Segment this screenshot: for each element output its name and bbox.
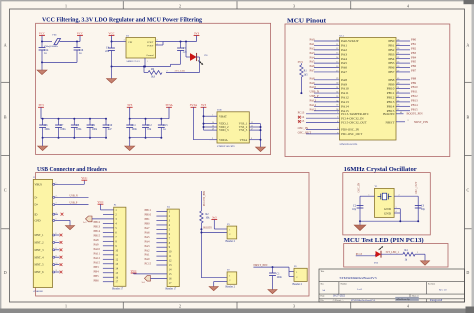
svg-text:USB_P: USB_P — [70, 202, 78, 205]
svg-text:C10: C10 — [108, 124, 113, 127]
svg-text:STM32MiniDevBoardV3: STM32MiniDevBoardV3 — [340, 276, 377, 280]
svg-text:25: 25 — [397, 100, 399, 102]
svg-text:PB10: PB10 — [145, 213, 152, 217]
svg-text:PB9: PB9 — [411, 81, 417, 85]
svg-text:PB6: PB6 — [388, 66, 394, 70]
svg-text:VSSA: VSSA — [240, 138, 249, 142]
svg-text:VCC: VCC — [81, 176, 87, 180]
svg-text:PA12: PA12 — [94, 256, 101, 260]
svg-text:PB3: PB3 — [388, 52, 394, 56]
svg-text:PA1: PA1 — [310, 42, 316, 46]
svg-text:STM32MiniDevBoardV3.S: STM32MiniDevBoardV3.S — [351, 300, 376, 302]
svg-text:PB12: PB12 — [387, 96, 395, 100]
svg-text:PA3: PA3 — [310, 51, 316, 55]
svg-text:MNT_2: MNT_2 — [35, 242, 45, 245]
svg-text:4: 4 — [337, 121, 338, 123]
svg-text:4700u@100MHz: 4700u@100MHz — [44, 46, 58, 48]
svg-text:3V3A: 3V3A — [165, 103, 173, 107]
svg-text:PA5: PA5 — [341, 61, 347, 65]
svg-text:PB13: PB13 — [387, 100, 395, 104]
svg-text:21: 21 — [397, 53, 399, 55]
svg-text:VDDA: VDDA — [219, 138, 228, 142]
svg-text:Title: Title — [321, 271, 325, 273]
svg-text:PA4: PA4 — [341, 57, 347, 61]
svg-text:PA10: PA10 — [341, 87, 349, 91]
svg-text:7: 7 — [56, 241, 57, 243]
svg-text:B: B — [4, 115, 7, 120]
svg-text:PA0: PA0 — [310, 38, 316, 42]
svg-text:C13: C13 — [163, 124, 168, 127]
svg-text:PB1: PB1 — [388, 44, 394, 48]
svg-text:PB2: PB2 — [411, 46, 417, 50]
svg-text:16MHz Crystal Oscillator: 16MHz Crystal Oscillator — [344, 166, 417, 173]
svg-text:PB5: PB5 — [388, 61, 394, 65]
svg-text:PA4: PA4 — [145, 239, 151, 243]
svg-text:473460001: 473460001 — [33, 291, 43, 293]
svg-text:45: 45 — [397, 78, 399, 80]
svg-text:48: 48 — [212, 128, 214, 130]
svg-text:PC14-OSC32_IN: PC14-OSC32_IN — [341, 116, 364, 120]
svg-text:1: 1 — [65, 303, 67, 308]
svg-text:NRST_PIN: NRST_PIN — [414, 120, 429, 124]
svg-text:PA0-WKUP: PA0-WKUP — [341, 39, 358, 43]
svg-text:4: 4 — [407, 303, 409, 308]
svg-text:PB4: PB4 — [94, 269, 100, 273]
svg-text:2: 2 — [56, 196, 57, 198]
svg-text:PB3: PB3 — [94, 265, 100, 269]
svg-text:Rev 1.0: Rev 1.0 — [439, 288, 447, 291]
svg-text:OSC_OUT: OSC_OUT — [298, 131, 312, 135]
svg-text:3: 3 — [56, 203, 57, 205]
svg-text:PB10: PB10 — [387, 87, 395, 91]
svg-text:VCC: VCC — [108, 31, 114, 35]
svg-text:USB_N: USB_N — [310, 90, 320, 94]
svg-text:PB7: PB7 — [388, 70, 394, 74]
svg-text:VCC: VCC — [131, 269, 137, 273]
svg-text:AMS1117-3.3: AMS1117-3.3 — [126, 60, 140, 63]
svg-text:VCC Filtering, 3.3V LDO Regula: VCC Filtering, 3.3V LDO Regulator and MC… — [42, 17, 203, 24]
svg-text:100n: 100n — [277, 276, 283, 279]
svg-text:NRST: NRST — [385, 121, 395, 125]
svg-text:GND: GND — [384, 207, 392, 211]
svg-text:PB8: PB8 — [411, 76, 417, 80]
svg-text:MNT_5: MNT_5 — [35, 264, 45, 267]
svg-text:3V3_LED: 3V3_LED — [175, 70, 186, 73]
svg-text:D: D — [4, 270, 7, 275]
svg-text:PA15: PA15 — [310, 107, 317, 111]
svg-text:3V3A: 3V3A — [190, 103, 198, 107]
svg-text:PA10: PA10 — [310, 85, 317, 89]
svg-text:2: 2 — [399, 194, 400, 196]
svg-text:46: 46 — [397, 83, 399, 85]
svg-text:4: 4 — [407, 3, 409, 8]
svg-text:16-27-2022: 16-27-2022 — [333, 294, 346, 297]
svg-text:PA2: PA2 — [310, 46, 316, 50]
svg-text:D+: D+ — [35, 204, 39, 207]
svg-text:1: 1 — [56, 183, 57, 185]
svg-text:1: 1 — [369, 194, 370, 196]
svg-text:File:: File: — [321, 300, 325, 302]
svg-text:5: 5 — [337, 128, 338, 130]
svg-text:14: 14 — [336, 57, 338, 59]
svg-text:PA13: PA13 — [310, 99, 317, 103]
svg-text:27: 27 — [397, 109, 399, 111]
svg-text:24: 24 — [212, 122, 214, 124]
svg-text:22: 22 — [397, 96, 399, 98]
svg-text:3: 3 — [337, 117, 338, 119]
svg-text:PA5: PA5 — [310, 60, 316, 64]
svg-text:PA12: PA12 — [341, 96, 349, 100]
svg-text:PB6: PB6 — [411, 64, 417, 68]
svg-text:OSC_IN: OSC_IN — [357, 183, 360, 193]
svg-text:MCU Test LED (PIN PC13): MCU Test LED (PIN PC13) — [344, 237, 424, 244]
svg-text:PB2: PB2 — [388, 48, 394, 52]
svg-text:ID: ID — [35, 213, 38, 216]
svg-text:Number: Number — [341, 283, 348, 285]
svg-text:5: 5 — [56, 219, 57, 221]
svg-text:26: 26 — [397, 66, 399, 68]
svg-text:PA1: PA1 — [341, 44, 347, 48]
svg-text:C: C — [466, 188, 469, 193]
svg-text:21: 21 — [397, 91, 399, 93]
svg-text:31: 31 — [336, 87, 338, 89]
svg-text:PC13: PC13 — [356, 253, 363, 256]
svg-text:C11: C11 — [132, 124, 137, 127]
svg-text:BOOT0_PIN: BOOT0_PIN — [407, 112, 424, 116]
svg-text:PB0: PB0 — [411, 38, 417, 42]
svg-text:4: 4 — [396, 211, 397, 213]
svg-text:46: 46 — [400, 112, 402, 114]
svg-text:PA8: PA8 — [310, 76, 316, 80]
svg-text:4: 4 — [56, 212, 57, 214]
svg-text:PD0-OSC_IN: PD0-OSC_IN — [341, 128, 360, 132]
svg-text:PA7: PA7 — [341, 70, 347, 74]
svg-text:1: 1 — [65, 3, 67, 8]
svg-text:MNT_3: MNT_3 — [35, 249, 45, 252]
svg-text:PB11: PB11 — [145, 208, 152, 212]
svg-text:BOOT0: BOOT0 — [383, 112, 395, 116]
svg-text:100n: 100n — [60, 128, 66, 131]
svg-text:U1A: U1A — [340, 34, 345, 37]
svg-text:38: 38 — [336, 109, 338, 111]
svg-text:GND: GND — [384, 211, 392, 215]
svg-text:PA8: PA8 — [94, 238, 100, 242]
svg-text:PB3: PB3 — [411, 51, 417, 55]
svg-text:Header 2: Header 2 — [226, 286, 236, 289]
svg-text:OSC_OUT: OSC_OUT — [415, 181, 418, 194]
svg-text:11: 11 — [336, 44, 338, 46]
svg-text:BOOT0_PIN: BOOT0_PIN — [203, 191, 206, 206]
svg-text:B: B — [466, 115, 469, 120]
svg-text:STM32F103C8T6: STM32F103C8T6 — [217, 145, 235, 148]
svg-text:Revision: Revision — [428, 283, 435, 285]
svg-text:100n: 100n — [92, 128, 98, 131]
svg-text:VOUT: VOUT — [147, 45, 154, 48]
svg-text:3: 3 — [124, 40, 125, 42]
svg-text:PA9: PA9 — [341, 82, 347, 86]
svg-text:6: 6 — [337, 132, 338, 134]
svg-text:PB13: PB13 — [94, 224, 101, 228]
svg-text:PA15: PA15 — [94, 260, 101, 264]
svg-text:Header 17: Header 17 — [166, 287, 177, 290]
svg-text:VBUS: VBUS — [35, 183, 43, 186]
svg-text:2: 2 — [179, 303, 181, 308]
svg-text:PA13: PA13 — [341, 100, 349, 104]
svg-text:PB6: PB6 — [94, 278, 100, 282]
svg-text:25: 25 — [397, 62, 399, 64]
svg-text:PA14: PA14 — [310, 103, 317, 107]
svg-text:USB Connector and Headers: USB Connector and Headers — [37, 166, 107, 173]
svg-text:PA0: PA0 — [145, 257, 151, 261]
svg-text:PA11: PA11 — [94, 251, 101, 255]
svg-text:18: 18 — [397, 39, 399, 41]
svg-text:PA3: PA3 — [341, 52, 347, 56]
svg-text:3: 3 — [293, 303, 295, 308]
svg-text:22: 22 — [397, 57, 399, 59]
svg-text:A: A — [466, 43, 469, 48]
svg-text:26: 26 — [397, 105, 399, 107]
svg-text:PB9: PB9 — [388, 82, 394, 86]
svg-text:51: 51 — [397, 87, 399, 89]
svg-text:C12: C12 — [147, 124, 152, 127]
svg-text:2: 2 — [167, 71, 168, 73]
svg-text:PB7: PB7 — [411, 69, 417, 73]
svg-text:10: 10 — [336, 39, 338, 41]
svg-text:PB12: PB12 — [411, 94, 418, 98]
svg-text:VCC: VCC — [39, 31, 45, 35]
svg-text:29: 29 — [336, 78, 338, 80]
svg-text:PB1: PB1 — [411, 42, 417, 46]
svg-text:PB4: PB4 — [388, 57, 394, 61]
svg-text:GND: GND — [35, 220, 41, 223]
svg-text:16: 16 — [336, 66, 338, 68]
svg-text:STM32F103C8T6: STM32F103C8T6 — [340, 143, 358, 146]
svg-text:17: 17 — [336, 70, 338, 72]
svg-text:PA3: PA3 — [145, 244, 151, 248]
svg-text:NRST_PIN: NRST_PIN — [253, 263, 268, 267]
svg-text:PB0: PB0 — [388, 39, 394, 43]
svg-text:3V3: 3V3 — [194, 31, 200, 35]
svg-text:1 of 1: 1 of 1 — [357, 288, 363, 291]
svg-text:Size: Size — [321, 283, 325, 285]
svg-text:VDD_3: VDD_3 — [219, 128, 229, 132]
svg-text:PB13: PB13 — [411, 99, 418, 103]
svg-text:3V3: 3V3 — [298, 60, 304, 64]
svg-text:32: 32 — [336, 91, 338, 93]
svg-text:PA7: PA7 — [145, 226, 151, 230]
svg-text:12: 12 — [336, 48, 338, 50]
svg-text:MCU Pinout: MCU Pinout — [287, 17, 327, 24]
svg-text:VOUT: VOUT — [147, 41, 154, 44]
svg-text:3V3: 3V3 — [38, 103, 44, 107]
svg-text:37: 37 — [336, 105, 338, 107]
svg-text:100n: 100n — [76, 128, 82, 131]
svg-text:8: 8 — [56, 248, 57, 250]
svg-text:23: 23 — [251, 122, 253, 124]
svg-text:PA11: PA11 — [341, 91, 349, 95]
svg-text:3V3: 3V3 — [127, 103, 133, 107]
svg-text:MNT_4: MNT_4 — [35, 256, 45, 259]
svg-text:20: 20 — [397, 48, 399, 50]
svg-text:PB11: PB11 — [411, 90, 418, 94]
svg-text:33: 33 — [336, 96, 338, 98]
svg-text:C: C — [4, 188, 7, 193]
svg-text:PB1: PB1 — [145, 217, 151, 221]
svg-text:C:\Users\ ..\: C:\Users\ ..\ — [333, 300, 344, 302]
svg-text:MNT_6: MNT_6 — [35, 271, 45, 274]
svg-text:100n: 100n — [44, 128, 50, 131]
svg-text:3v3: 3v3 — [212, 215, 217, 219]
svg-text:PC15-OSC32_OUT: PC15-OSC32_OUT — [341, 121, 367, 125]
svg-text:2: 2 — [179, 3, 181, 8]
svg-text:34: 34 — [336, 100, 338, 102]
svg-text:VCC: VCC — [77, 31, 83, 35]
svg-text:PB4: PB4 — [411, 55, 417, 59]
svg-text:VIN: VIN — [128, 41, 133, 44]
svg-text:35: 35 — [251, 125, 253, 127]
svg-text:PB8: PB8 — [388, 78, 394, 82]
svg-text:100n: 100n — [132, 128, 138, 131]
svg-text:PB15: PB15 — [94, 233, 101, 237]
svg-text:OSC_IN: OSC_IN — [298, 126, 309, 130]
svg-text:PA9: PA9 — [94, 242, 100, 246]
svg-text:PB5: PB5 — [94, 274, 100, 278]
svg-text:47: 47 — [251, 128, 253, 130]
svg-text:VSS_3: VSS_3 — [239, 128, 248, 132]
svg-text:Date:: Date: — [321, 295, 326, 297]
svg-text:2: 2 — [337, 112, 338, 114]
svg-text:10: 10 — [56, 263, 58, 265]
svg-text:PB5: PB5 — [411, 60, 417, 64]
svg-text:36: 36 — [212, 125, 214, 127]
svg-text:VCC: VCC — [97, 200, 103, 204]
svg-text:9: 9 — [56, 255, 57, 257]
svg-text:30: 30 — [336, 83, 338, 85]
svg-text:PB14: PB14 — [387, 104, 395, 108]
svg-text:PA6: PA6 — [341, 66, 347, 70]
svg-text:Header 2: Header 2 — [293, 283, 303, 286]
svg-text:PB0: PB0 — [145, 222, 151, 226]
svg-text:PA5: PA5 — [145, 235, 151, 239]
svg-text:PA9: PA9 — [310, 81, 316, 85]
svg-text:PA10: PA10 — [94, 247, 101, 251]
svg-text:VBAT: VBAT — [219, 114, 227, 118]
svg-text:Ground: Ground — [146, 54, 154, 57]
svg-text:chDocDrawn By:: chDocDrawn By: — [396, 299, 410, 301]
svg-text:D-: D- — [35, 196, 38, 199]
svg-text:PA4: PA4 — [310, 55, 316, 59]
svg-text:PB14: PB14 — [94, 229, 101, 233]
svg-text:BOOT0: BOOT0 — [203, 226, 212, 229]
svg-text:D: D — [466, 270, 469, 275]
svg-text:PA1: PA1 — [145, 253, 151, 257]
svg-text:19: 19 — [397, 44, 399, 46]
svg-text:3: 3 — [293, 3, 295, 8]
svg-text:PB11: PB11 — [387, 91, 395, 95]
svg-text:27: 27 — [397, 70, 399, 72]
svg-text:PB14: PB14 — [411, 103, 418, 107]
svg-text:15: 15 — [336, 62, 338, 64]
svg-text:PA7: PA7 — [310, 69, 316, 73]
svg-text:3V3: 3V3 — [201, 103, 207, 107]
svg-text:Header 17: Header 17 — [112, 287, 123, 290]
svg-text:USB_N: USB_N — [70, 194, 78, 197]
svg-text:PC13-TAMPER-RTC: PC13-TAMPER-RTC — [341, 112, 369, 116]
svg-text:1: 1 — [212, 115, 213, 117]
svg-text:PA14: PA14 — [341, 104, 349, 108]
svg-text:1: 1 — [147, 61, 148, 63]
svg-text:Header 2: Header 2 — [226, 240, 236, 243]
svg-text:PanagiotisP: PanagiotisP — [430, 299, 443, 302]
svg-text:USB_P: USB_P — [310, 94, 319, 98]
svg-text:2: 2 — [408, 120, 409, 122]
svg-text:PA8: PA8 — [341, 78, 347, 82]
svg-text:PD1-OSC_OUT: PD1-OSC_OUT — [341, 132, 362, 136]
svg-text:3V3_LED_1: 3V3_LED_1 — [386, 251, 400, 254]
svg-text:U5B: U5B — [217, 108, 222, 111]
svg-text:PC15: PC15 — [145, 262, 152, 266]
svg-text:PC13: PC13 — [298, 110, 305, 114]
svg-text:2: 2 — [417, 252, 418, 254]
svg-text:PB10: PB10 — [411, 85, 418, 89]
svg-text:A: A — [4, 43, 7, 48]
svg-text:PA6: PA6 — [145, 230, 151, 234]
svg-text:PB12: PB12 — [94, 220, 101, 224]
svg-text:PA2: PA2 — [341, 48, 347, 52]
svg-text:13: 13 — [336, 53, 338, 55]
svg-text:PA6: PA6 — [310, 64, 316, 68]
svg-text:9: 9 — [212, 138, 213, 140]
svg-text:11: 11 — [56, 270, 58, 272]
svg-text:6: 6 — [56, 233, 57, 235]
svg-text:MNT_1: MNT_1 — [35, 234, 45, 237]
svg-text:3: 3 — [396, 207, 397, 209]
svg-text:8: 8 — [251, 138, 252, 140]
svg-text:PA2: PA2 — [145, 248, 151, 252]
